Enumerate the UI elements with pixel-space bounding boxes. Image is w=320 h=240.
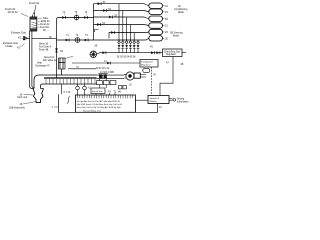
label 41 with leader	[17, 44, 25, 50]
stadium 5	[149, 29, 163, 35]
manifold elbow	[34, 75, 44, 89]
stadium 6	[149, 36, 163, 42]
riser valve 43	[55, 48, 58, 52]
label 69	[95, 45, 98, 48]
air conditioning mode text	[174, 5, 188, 14]
manifold drop to enclosure	[61, 84, 63, 94]
label 52	[108, 8, 111, 11]
blower circle assembly	[124, 72, 146, 80]
svg-text:Fresh 4B: Fresh 4B	[39, 49, 49, 52]
brace left of control unit	[67, 97, 70, 104]
label 49	[150, 46, 153, 49]
svg-text:Fuel/Ignition: Fuel/Ignition	[141, 61, 154, 64]
svg-text:Mode: Mode	[173, 35, 180, 38]
control unit box	[75, 95, 135, 112]
label 14 on sensor line	[104, 60, 107, 63]
bus2 pump circle	[75, 38, 80, 43]
air cleaner side labels	[40, 17, 50, 32]
branch2 valve 52	[103, 9, 107, 12]
injector diamonds row 1	[118, 41, 140, 44]
label 12	[159, 106, 162, 109]
label 47	[166, 62, 169, 65]
svg-text:Carb unit: Carb unit	[17, 96, 27, 99]
label 10	[129, 84, 132, 87]
line from check box right	[182, 52, 186, 54]
stadium 2	[149, 9, 163, 15]
svg-text:Driving: Driving	[177, 97, 185, 100]
stubs into control box	[96, 79, 115, 95]
terminal boxes 7 10	[119, 86, 127, 89]
leader from float chamber	[65, 56, 73, 58]
text block mixer labels	[39, 43, 52, 52]
stadium 3	[149, 16, 163, 22]
check box feedback L line	[160, 57, 173, 96]
right control box	[148, 96, 169, 104]
throttle body black plates	[99, 74, 107, 78]
injector downcomer 3	[126, 17, 128, 53]
stadium 1 label	[163, 5, 169, 8]
svg-text:Regulator: Regulator	[166, 53, 176, 56]
leader to air cleaner	[21, 14, 28, 17]
svg-text:Map funct: Map funct	[141, 64, 151, 67]
svg-text:Exchanger 47: Exchanger 47	[36, 65, 51, 68]
svg-text:Heat: Heat	[37, 62, 42, 65]
svg-text:Mode: Mode	[178, 11, 185, 14]
svg-text:61 62 63 64 65 66: 61 62 63 64 65 66	[117, 57, 136, 59]
bus line 2	[57, 38, 149, 40]
line to stadium 5	[109, 32, 149, 39]
labels 6 T 10	[64, 91, 71, 94]
intake pipe down from air cleaner	[30, 31, 32, 86]
label 14 carb	[17, 93, 33, 99]
stadium 4	[149, 23, 163, 29]
steering mode text	[170, 32, 183, 38]
svg-text:No-load Relay 1 (c): No-load Relay 1 (c)	[83, 110, 101, 112]
svg-text:6 T 10: 6 T 10	[64, 91, 71, 94]
text block speed-up	[43, 57, 57, 62]
bus1 valve B	[84, 16, 88, 19]
stadium 5 label	[163, 31, 169, 34]
svg-text:Fresh Air: Fresh Air	[29, 1, 40, 5]
air cleaner neck	[33, 15, 35, 17]
injector downcomer 1	[118, 4, 120, 53]
label heat exchanger	[36, 62, 51, 68]
label Exhaust Gas Intake	[3, 41, 19, 48]
air cleaner cylinder	[30, 17, 37, 31]
circled c and driving info	[169, 97, 189, 103]
left riser	[57, 18, 59, 79]
connector pipe to riser	[32, 38, 57, 40]
T marks right	[108, 91, 121, 94]
injector downcomer 2	[122, 11, 124, 53]
carburetor venturi funnel	[33, 89, 44, 103]
intake manifold pipe	[44, 75, 97, 84]
injector nozzles row 2	[118, 45, 140, 48]
throttle marks	[98, 73, 108, 75]
sensor circle stem A	[76, 84, 80, 95]
rail numbers	[117, 57, 136, 59]
branch 3	[94, 17, 149, 19]
label 36	[49, 37, 52, 39]
label 43	[60, 49, 63, 53]
bus1 pump circle	[74, 15, 79, 20]
label 54	[102, 22, 105, 25]
bus1 label ticks	[65, 13, 87, 15]
bottom line to right box	[135, 104, 157, 113]
branch 1	[94, 4, 149, 6]
label 78	[153, 74, 156, 77]
svg-text:(4): (4)	[118, 91, 121, 94]
label 48	[181, 63, 184, 66]
fan blower circle	[90, 51, 97, 58]
small box row A	[97, 81, 116, 85]
svg-text:Speed Ctl: Speed Ctl	[150, 97, 160, 100]
svg-text:Speed Up: Speed Up	[44, 57, 55, 59]
tick label 1	[52, 106, 59, 109]
svg-text:Idle EGR Spark Ctl Unit Map Se: Idle EGR Spark Ctl Unit Map Sens Inp Out…	[77, 103, 122, 106]
svg-text:40-44 42: 40-44 42	[8, 10, 19, 14]
valve on stadium5 line	[111, 31, 115, 34]
stadium 1	[149, 3, 163, 9]
connection control to right box	[135, 99, 148, 101]
small oval below fuel box	[143, 68, 150, 72]
thin sensor line upper	[72, 62, 140, 64]
injector downcomer 4	[129, 25, 131, 53]
svg-text:Exhaust Gas: Exhaust Gas	[11, 31, 27, 35]
EGR valve on pipe	[23, 37, 29, 40]
branch4 valve 54	[97, 23, 101, 26]
pipe elbow into venturi	[30, 86, 35, 89]
svg-text:Information: Information	[177, 100, 189, 103]
branch3 valve 53	[109, 16, 113, 19]
sensor text row	[76, 67, 114, 74]
rail valve left	[102, 51, 106, 54]
branch 4	[94, 25, 149, 26]
bus line 1	[59, 17, 94, 19]
svg-text:16B Assembly: 16B Assembly	[9, 107, 26, 110]
fuel ignition map box	[140, 60, 158, 68]
stadium 4 label	[163, 25, 169, 28]
label Exhaust Gas	[11, 31, 27, 35]
label 16 assembly	[9, 102, 36, 110]
svg-text:62 B 14 0 4a: 62 B 14 0 4a	[96, 68, 110, 70]
branch 2	[94, 11, 149, 12]
svg-text:Knock Sen: Knock Sen	[92, 91, 103, 93]
svg-text:Module: Module	[150, 101, 158, 103]
bus2 valve B	[85, 39, 89, 42]
svg-text:Meter 36: Meter 36	[39, 43, 49, 46]
leader ticks from labels to cylinder	[38, 19, 42, 28]
svg-text:Check Eng Gas: Check Eng Gas	[164, 51, 181, 53]
sensor valve on line	[107, 62, 111, 65]
trunk vertical	[93, 4, 95, 40]
junction dots	[118, 32, 134, 41]
label 53	[114, 14, 117, 17]
dashed line fuel box to control	[151, 67, 153, 96]
injector downcomer 6	[137, 40, 139, 53]
sensor mark +2	[88, 87, 91, 90]
stadium 2 label	[163, 11, 169, 14]
svg-text:Sens Inp Out Drv Rly Tst Diag: Sens Inp Out Drv Rly Tst Diag A/C EGR In…	[77, 106, 122, 109]
sensor circle stem B	[83, 84, 87, 95]
knock sensor box	[91, 88, 105, 94]
fan to rail link	[97, 53, 100, 54]
label 42 with arrow	[18, 36, 25, 40]
rail valve right pair	[151, 51, 155, 54]
label Fresh Air upper	[29, 1, 40, 5]
injector rail	[100, 52, 163, 54]
check gas regulator box	[163, 49, 183, 57]
svg-text:Fuel Sens 4: Fuel Sens 4	[39, 47, 52, 49]
bus1 valve A	[62, 16, 66, 19]
label 51	[103, 1, 106, 4]
bus1 component labels	[63, 11, 88, 14]
label Fresh Air top-left	[5, 7, 18, 14]
thin sensor line lower	[68, 68, 96, 70]
stadium 3 label	[163, 18, 169, 21]
injector downcomer 5	[133, 33, 135, 53]
corner bracket	[95, 30, 99, 33]
branch1 valve 51	[98, 2, 102, 5]
bus2 component labels	[66, 34, 88, 37]
svg-text:Sw Ign Adv Fuel Inj Thrtl A/C: Sw Ign Adv Fuel Inj Thrtl A/C Idle Map E…	[77, 100, 121, 103]
stadium 6 label	[163, 37, 169, 40]
carburetor float chamber	[59, 58, 66, 75]
throttle section lines	[97, 75, 125, 78]
enclosure bracket	[59, 94, 76, 112]
svg-text:Intake: Intake	[6, 44, 14, 48]
bus2 valve A	[66, 39, 70, 42]
manifold hatch ticks	[46, 79, 95, 84]
svg-text:Exh Valve 4a: Exh Valve 4a	[43, 60, 57, 62]
leader arrow into air cleaner top	[33, 5, 36, 15]
